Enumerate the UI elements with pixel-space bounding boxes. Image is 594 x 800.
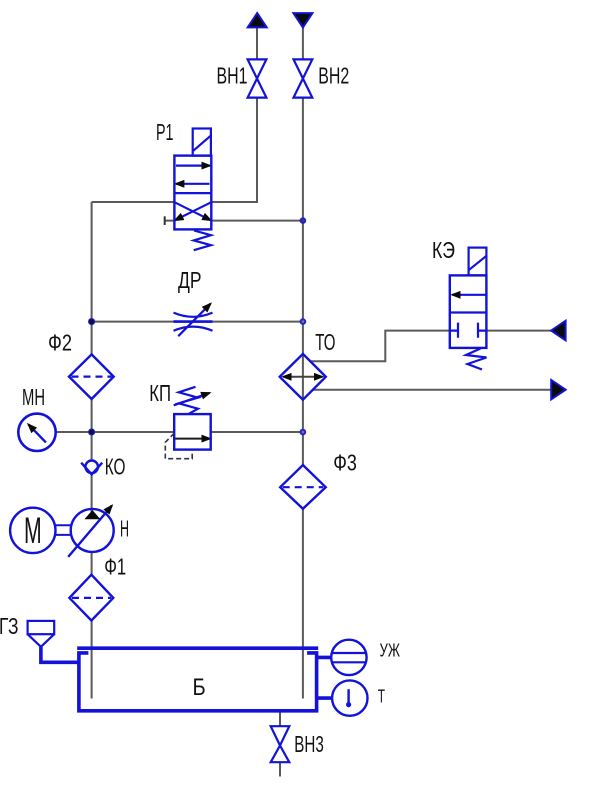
svg-text:Ф2: Ф2: [48, 330, 72, 356]
svg-text:КО: КО: [105, 454, 126, 480]
svg-text:ТО: ТО: [315, 329, 335, 355]
svg-text:ВН2: ВН2: [318, 63, 349, 89]
svg-text:ВН1: ВН1: [217, 63, 248, 89]
svg-text:Ф1: Ф1: [104, 554, 126, 580]
svg-text:УЖ: УЖ: [380, 640, 401, 660]
svg-text:ВН3: ВН3: [294, 731, 324, 757]
svg-text:Б: Б: [193, 674, 206, 701]
svg-text:МН: МН: [22, 384, 45, 410]
svg-text:Т: Т: [378, 686, 385, 706]
svg-text:Н: Н: [120, 516, 129, 542]
svg-text:КЭ: КЭ: [432, 237, 455, 263]
svg-text:Р1: Р1: [156, 119, 174, 145]
svg-text:ДР: ДР: [178, 267, 202, 293]
svg-text:М: М: [24, 510, 42, 551]
svg-text:ГЗ: ГЗ: [0, 613, 19, 639]
svg-text:КП: КП: [149, 380, 171, 406]
svg-text:Ф3: Ф3: [333, 450, 357, 476]
